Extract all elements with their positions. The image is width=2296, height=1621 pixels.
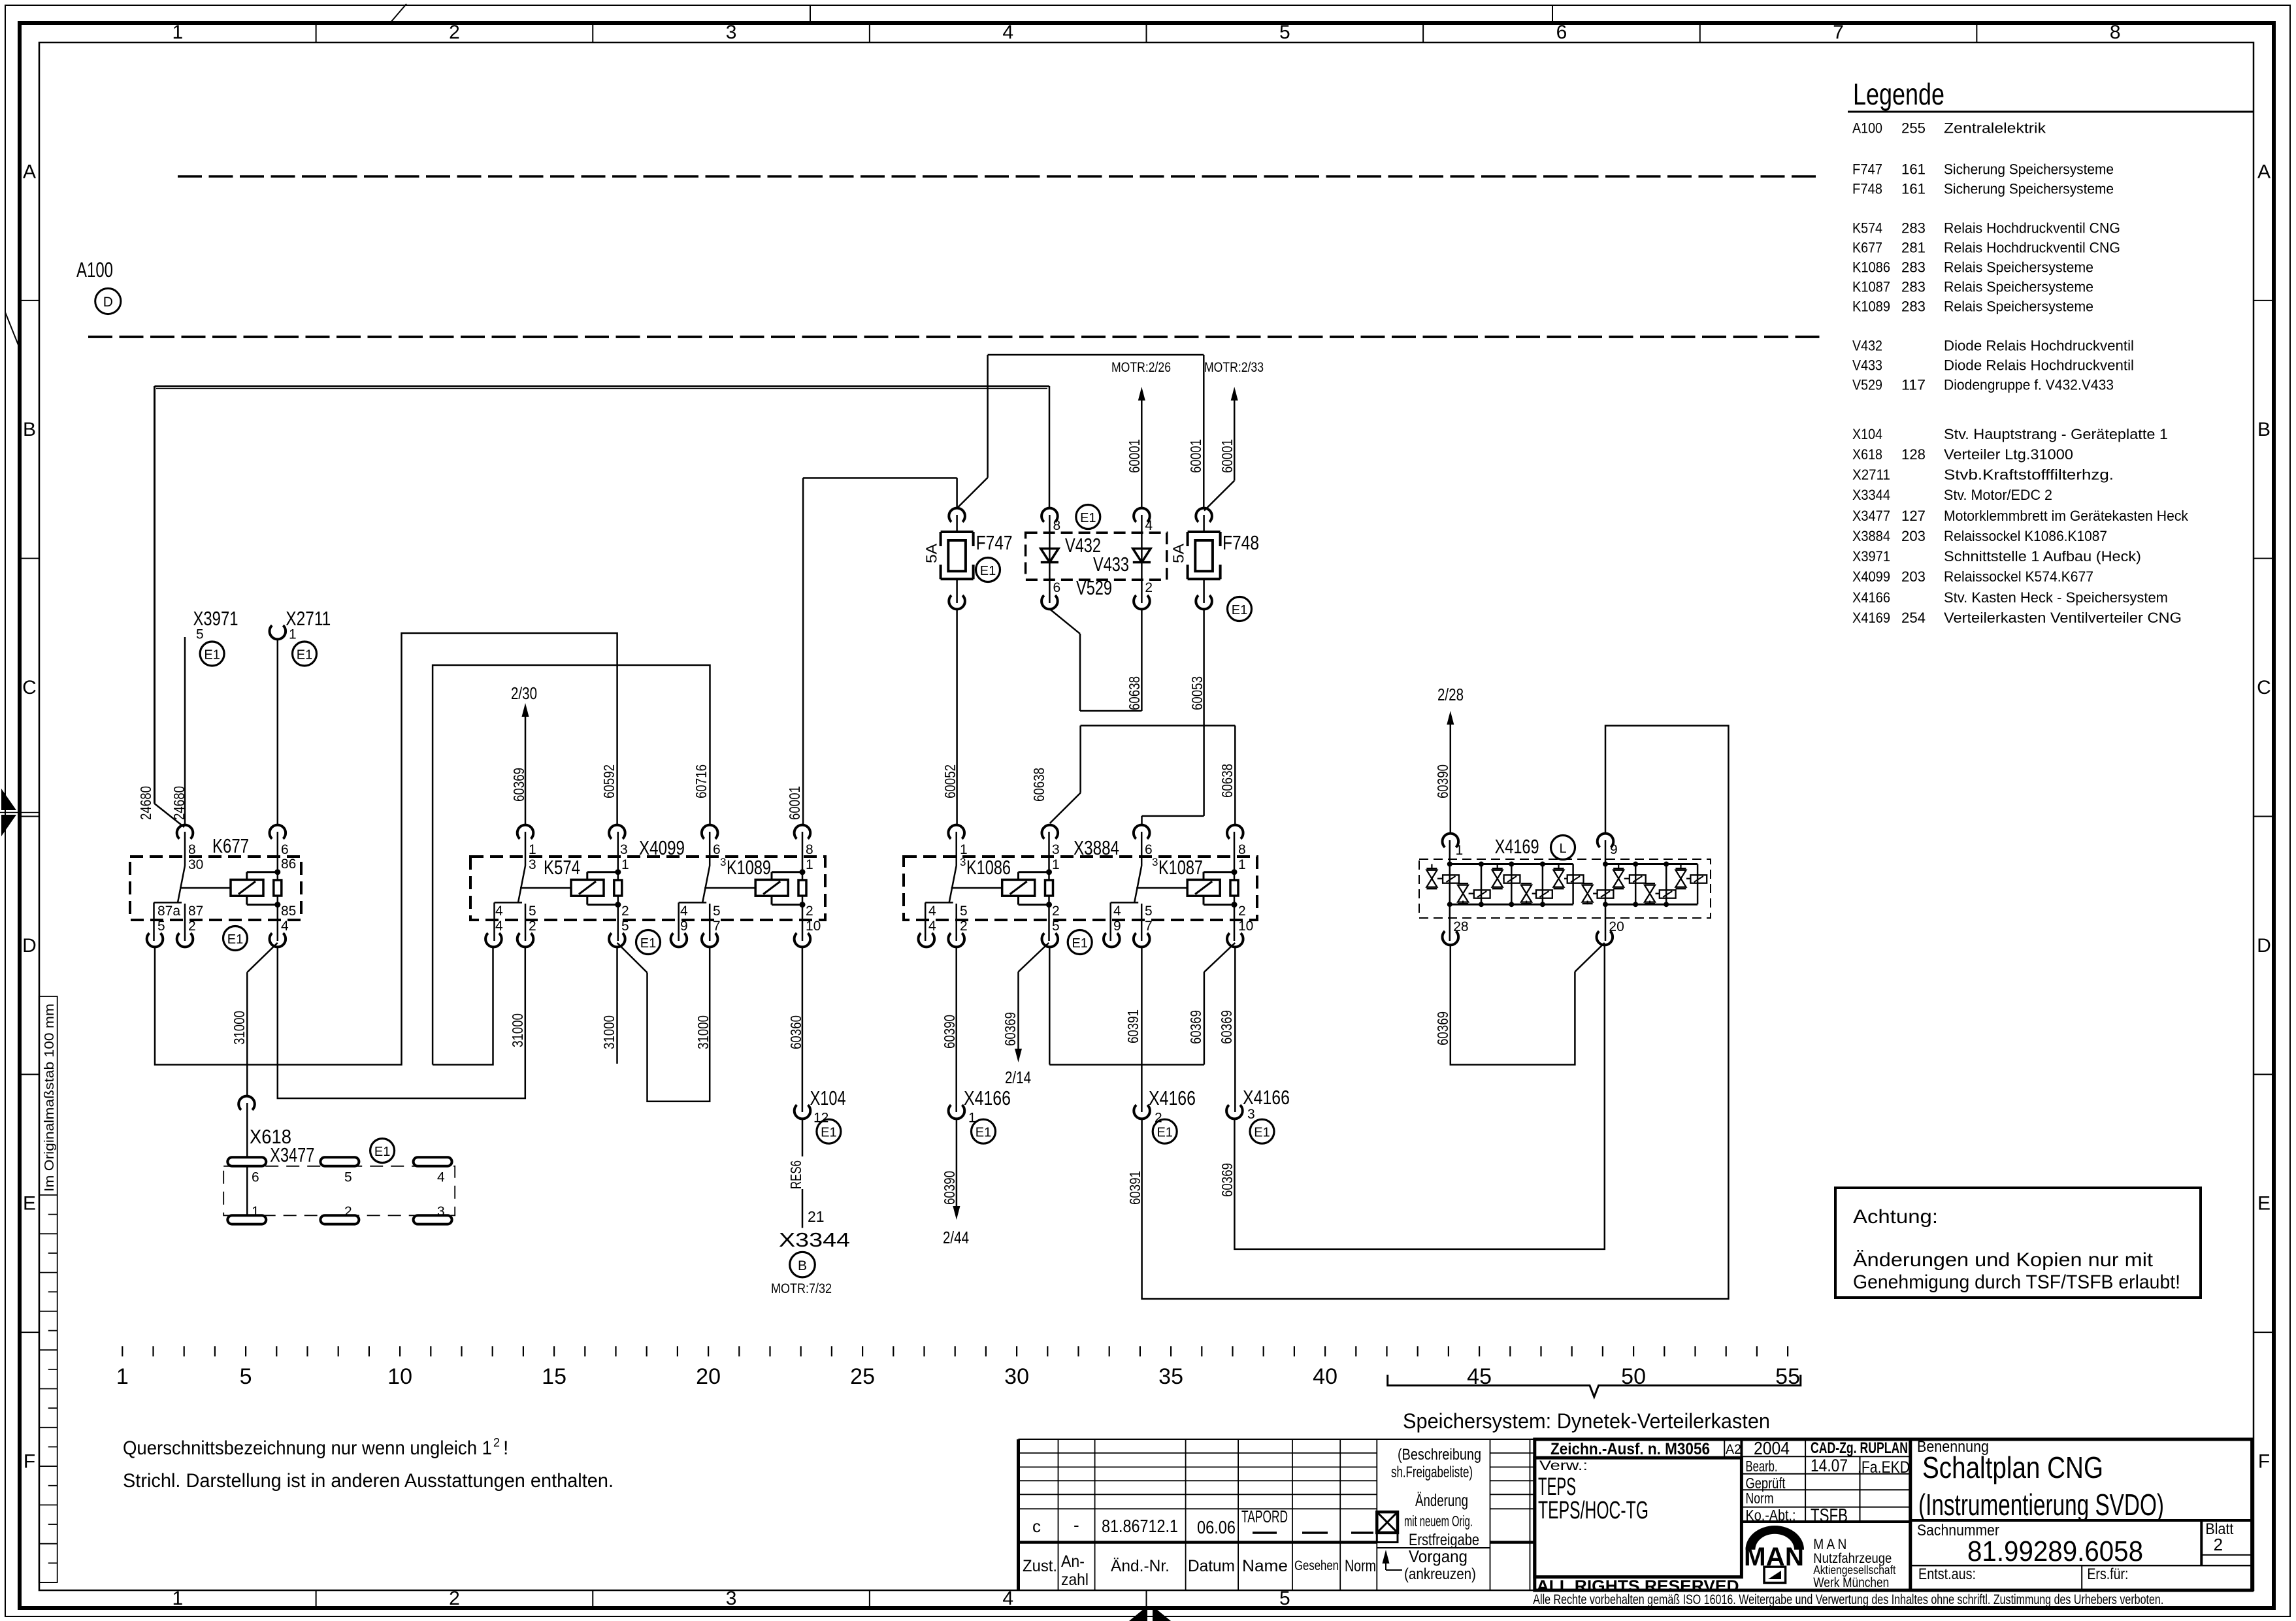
svg-text:8: 8 [2110,22,2121,43]
wire X618 to X3477 net 31000 [246,1103,248,1223]
svg-text:Vorgang: Vorgang [1409,1547,1468,1566]
wire net top link F747-F748 [988,354,1204,356]
svg-text:60638: 60638 [1030,768,1047,802]
svg-text:128: 128 [1901,446,1926,463]
svg-text:-: - [1074,1515,1079,1535]
svg-text:V529: V529 [1076,576,1112,599]
svg-text:E1: E1 [1156,1126,1172,1140]
svg-text:F748: F748 [1852,181,1882,197]
svg-text:TSFB: TSFB [1811,1505,1848,1526]
svg-text:X618: X618 [1852,446,1882,463]
svg-text:2/28: 2/28 [1437,685,1464,704]
wire net 60001 K1089 pin8 to F747 [803,477,957,479]
E1 circle X3971 [200,642,224,666]
svg-text:5: 5 [529,904,536,919]
svg-text:10: 10 [1238,919,1253,934]
svg-text:3: 3 [726,1588,737,1609]
X4169 valve units upper row [1426,864,1707,889]
wire net 60369 X4169 pin28 to pin20 [1451,945,1575,1065]
connector arcs fuse-diode row bottom [949,595,1212,609]
relay K1087 coil [1234,832,1236,880]
svg-text:60391: 60391 [1124,1009,1141,1043]
X3477 contact pin 4 [414,1157,452,1166]
svg-text:2: 2 [344,1204,352,1219]
svg-text:6: 6 [252,1170,259,1185]
svg-text:6: 6 [713,842,721,857]
svg-text:21: 21 [808,1208,825,1225]
svg-text:Genehmigung durch TSF/TSFB erl: Genehmigung durch TSF/TSFB erlaubt! [1853,1271,2180,1293]
svg-text:24680: 24680 [171,786,188,820]
svg-text:283: 283 [1901,279,1926,295]
title block Vorgang cell [1377,1446,1481,1583]
svg-text:Aktiengesellschaft: Aktiengesellschaft [1813,1564,1895,1577]
wire X2711 to K677 pin 6 net 59000 [277,639,279,825]
svg-text:2: 2 [1145,580,1153,595]
svg-text:V529: V529 [1852,377,1882,393]
svg-text:E1: E1 [1080,511,1096,525]
svg-text:3: 3 [529,857,536,872]
connector arcs X4169 bottom [1443,931,1459,945]
wire net 60360 K1089 pin10 to X104 [802,947,804,1112]
svg-text:X104: X104 [810,1087,846,1109]
svg-text:1: 1 [621,857,629,872]
frame column ticks top [316,23,1977,1608]
svg-text:81.86712.1: 81.86712.1 [1102,1516,1178,1536]
svg-text:Relais Hochdruckventil CNG: Relais Hochdruckventil CNG [1944,240,2120,256]
svg-text:2: 2 [1052,904,1060,919]
svg-text:3: 3 [437,1204,445,1219]
svg-text:E1: E1 [374,1145,390,1159]
svg-text:E1: E1 [1232,603,1247,617]
svg-text:6: 6 [281,842,289,857]
svg-text:X3477: X3477 [270,1143,314,1166]
svg-text:283: 283 [1901,220,1926,237]
svg-text:8: 8 [1238,842,1246,857]
svg-text:K1087: K1087 [1158,856,1203,879]
svg-text:3: 3 [1247,1107,1255,1122]
svg-text:3: 3 [726,22,737,43]
relay socket X4099 dashed box [470,857,825,920]
svg-text:3: 3 [720,856,726,868]
wire F747 to K1086 pin 1 net 60052 [956,515,958,532]
title block revision header row [1023,1552,1376,1589]
svg-text:1: 1 [529,842,536,857]
svg-text:L: L [1559,842,1566,856]
node D circle [95,288,121,314]
svg-text:127: 127 [1901,508,1926,524]
E1 circle X4166-3 [1250,1119,1274,1143]
svg-text:9: 9 [680,919,688,934]
svg-text:31000: 31000 [695,1015,712,1049]
svg-text:2: 2 [449,22,460,43]
svg-text:2: 2 [621,904,629,919]
svg-text:9: 9 [1113,919,1121,934]
svg-text:Relais Speichersysteme: Relais Speichersysteme [1944,259,2093,276]
svg-text:K1086: K1086 [966,856,1011,879]
svg-text:35: 35 [1158,1364,1183,1389]
svg-text:Norm: Norm [1746,1490,1774,1507]
svg-text:A100: A100 [76,258,113,282]
svg-text:14.07: 14.07 [1811,1456,1848,1475]
svg-text:Ko.-Abt.:: Ko.-Abt.: [1746,1507,1796,1524]
svg-text:K1089: K1089 [1852,299,1890,315]
svg-text:X3971: X3971 [1852,548,1890,565]
svg-text:5: 5 [1279,1588,1290,1609]
svg-text:8: 8 [806,842,813,857]
wire net 60391 K1087 pin7 to X4166-2 [1141,947,1143,1112]
connector arcs X4169 top [1443,834,1459,847]
wire net 60716 K574 pin4 to K1089 pin6 [433,947,493,1065]
svg-text:E1: E1 [227,932,243,947]
relay K677 contact [184,832,186,866]
svg-text:60390: 60390 [941,1171,958,1205]
svg-text:6: 6 [1053,580,1061,595]
svg-text:4: 4 [495,919,503,934]
svg-text:3: 3 [620,842,628,857]
svg-text:1: 1 [960,842,968,857]
svg-text:60001: 60001 [1126,439,1143,473]
svg-text:2004: 2004 [1754,1438,1790,1458]
svg-text:161: 161 [1901,181,1926,197]
svg-text:V433: V433 [1852,357,1882,374]
fold mark tick top 2 [1552,5,1553,22]
svg-text:2: 2 [188,919,196,934]
X4169 internal rails and wires [1447,840,1697,941]
E1 circle X4166-2 [1153,1119,1177,1143]
svg-text:60390: 60390 [941,1015,958,1049]
svg-text:4: 4 [928,904,936,919]
svg-text:281: 281 [1901,240,1926,256]
wire X104 to X3344 net RES6 [802,1118,804,1156]
relay K1089 coil [802,832,804,880]
svg-text:X3477: X3477 [1852,508,1890,524]
svg-text:X3884: X3884 [1852,528,1890,544]
svg-text:sh.Freigabeliste): sh.Freigabeliste) [1391,1464,1473,1481]
svg-text:2: 2 [493,1436,500,1449]
svg-text:K1087: K1087 [1852,279,1890,295]
svg-text:Verteilerkasten Ventilverteile: Verteilerkasten Ventilverteiler CNG [1944,610,2182,626]
svg-text:87a: 87a [157,904,180,919]
svg-text:7: 7 [1145,919,1153,934]
svg-text:Relais Hochdruckventil CNG: Relais Hochdruckventil CNG [1944,220,2120,237]
svg-text:F747: F747 [1852,161,1882,178]
svg-text:F: F [24,1451,35,1473]
svg-text:60369: 60369 [510,768,527,802]
svg-text:Werk München: Werk München [1813,1575,1889,1590]
svg-text:5: 5 [1279,22,1290,43]
svg-text:Diodengruppe f. V432.V433: Diodengruppe f. V432.V433 [1944,377,2114,393]
connector X3477 dashed box [223,1166,455,1216]
svg-text:V432: V432 [1852,338,1882,354]
svg-text:2: 2 [1238,904,1246,919]
svg-text:Diode Relais Hochdruckventil: Diode Relais Hochdruckventil [1944,357,2134,374]
E1 circle X104 [817,1119,841,1143]
svg-text:c: c [1032,1516,1041,1536]
svg-text:2: 2 [2214,1535,2223,1554]
svg-text:60369: 60369 [1434,1011,1451,1045]
svg-text:E: E [2257,1193,2271,1215]
svg-text:Änd.-Nr.: Änd.-Nr. [1111,1557,1170,1575]
wire net 31000 K677 pin4 to K574 pin2 [278,947,525,1098]
svg-text:K574: K574 [1852,220,1882,237]
X3477 contact pin 6 [227,1157,266,1166]
fold mark triangles left middle [1,789,16,810]
note box Achtung [1835,1188,2201,1298]
svg-text:Datum: Datum [1188,1557,1235,1575]
svg-text:60052: 60052 [942,764,959,798]
svg-text:CAD-Zg. RUPLAN: CAD-Zg. RUPLAN [1811,1439,1908,1457]
svg-text:Norm: Norm [1345,1557,1376,1575]
svg-text:255: 255 [1901,120,1926,136]
fuse F748 5A [1188,531,1221,533]
X3477 contact pin 1 [227,1215,266,1224]
svg-text:(Beschreibung: (Beschreibung [1398,1446,1481,1464]
wire net 60638 X3884 pin3 to pin8 [1050,793,1081,824]
E1 circle X4166-1 [972,1119,996,1143]
svg-text:1: 1 [116,1364,129,1389]
svg-text:.Fa.EKD: .Fa.EKD [1858,1458,1910,1477]
svg-text:60390: 60390 [1434,764,1451,798]
wire net 31000 K574 coil bottom to K1089 pin7 [617,943,648,973]
svg-text:Zentralelektrik: Zentralelektrik [1944,120,2046,136]
E1 circle K677 [223,926,248,951]
relay socket X3884 dashed box [904,857,1257,920]
svg-text:E1: E1 [640,936,656,951]
relay K574 coil [617,832,619,880]
E1 circle X3884 [1068,930,1092,955]
svg-text:81.99289.6058: 81.99289.6058 [1967,1535,2143,1567]
svg-text:40: 40 [1313,1364,1337,1389]
svg-text:D: D [22,935,37,957]
connector arcs relay row top [177,825,1243,839]
svg-text:7: 7 [713,919,721,934]
E1 circle X4099 [636,930,661,955]
svg-text:X3344: X3344 [1852,487,1890,503]
svg-text:60053: 60053 [1189,676,1205,710]
svg-text:2: 2 [529,919,536,934]
frame column labels top [172,22,2120,43]
diode group V529 dashed box [1026,532,1167,580]
svg-text:60592: 60592 [600,764,617,798]
svg-text:Zeichn.-Ausf. n. M3056: Zeichn.-Ausf. n. M3056 [1550,1440,1710,1458]
svg-text:5: 5 [1052,919,1060,934]
connector X4169 dashed box [1419,859,1711,918]
svg-text:5: 5 [196,627,204,642]
svg-text:Querschnittsbezeichnung nur we: Querschnittsbezeichnung nur wenn ungleic… [123,1437,492,1459]
svg-text:Zust.: Zust. [1023,1557,1057,1575]
svg-text:X2711: X2711 [1852,467,1890,483]
wire net 60592 K677 pin5 to K574 coil [155,633,617,1065]
svg-text:E1: E1 [980,564,996,578]
svg-text:F747: F747 [976,531,1013,554]
svg-text:Name: Name [1242,1557,1288,1575]
svg-text:60001: 60001 [1219,439,1236,473]
svg-text:MOTR:7/32: MOTR:7/32 [771,1281,832,1296]
svg-text:10: 10 [806,919,821,934]
svg-text:5: 5 [621,919,629,934]
E1 circle X3477 [370,1139,395,1163]
svg-text:Sicherung Speichersysteme: Sicherung Speichersysteme [1944,161,2114,178]
X3477 contact pin 5 [320,1157,359,1166]
svg-text:Relais Speichersysteme: Relais Speichersysteme [1944,299,2093,315]
svg-text:5A: 5A [923,543,940,563]
relay K677 dashed box [130,857,301,920]
svg-text:zahl: zahl [1061,1571,1089,1589]
svg-text:K1086: K1086 [1852,259,1890,276]
svg-text:E1: E1 [297,648,312,663]
off-sheet arrow 2/44 below X4166-1 [956,1118,958,1206]
svg-text:Stvb.Kraftstofffilterhzg.: Stvb.Kraftstofffilterhzg. [1944,467,2114,483]
relay K574 contact [525,832,527,866]
svg-text:Schaltplan CNG: Schaltplan CNG [1922,1450,2103,1484]
fold mark triangles bottom centre [1129,1606,1147,1621]
svg-text:Relais Speichersysteme: Relais Speichersysteme [1944,279,2093,295]
svg-text:60369: 60369 [1219,1163,1236,1197]
svg-text:4: 4 [495,904,503,919]
svg-text:60001: 60001 [1187,439,1204,473]
svg-text:RES6: RES6 [787,1160,804,1189]
svg-text:5: 5 [1145,904,1153,919]
svg-text:6: 6 [1556,22,1567,43]
svg-text:F748: F748 [1222,531,1259,554]
svg-text:25: 25 [850,1364,875,1389]
svg-text:60369: 60369 [1002,1012,1019,1046]
svg-text:MOTR:2/33: MOTR:2/33 [1204,360,1264,375]
X3477 contact pin 3 [414,1215,452,1224]
svg-text:A: A [23,161,36,182]
svg-text:20: 20 [696,1364,721,1389]
X3477 contact pin 2 [320,1215,359,1224]
svg-text:1: 1 [1052,857,1060,872]
svg-text:31000: 31000 [509,1013,526,1047]
svg-text:60716: 60716 [693,764,710,798]
A100 dashed boundary upper [178,175,1822,178]
svg-text:3: 3 [960,856,966,868]
wire net 31000 K677 pin4 to X618 [247,943,278,972]
svg-text:2/44: 2/44 [943,1228,969,1247]
svg-text:An-: An- [1061,1552,1085,1571]
fold mark diagonal top [391,4,406,22]
svg-text:Änderung: Änderung [1415,1490,1468,1510]
svg-text:Stv. Hauptstrang - Geräteplatt: Stv. Hauptstrang - Geräteplatte 1 [1944,426,2168,442]
svg-text:B: B [798,1258,807,1273]
svg-text:2: 2 [960,919,968,934]
svg-text:C: C [2257,677,2271,698]
svg-text:283: 283 [1901,259,1926,276]
svg-text:60638: 60638 [1219,764,1236,798]
svg-text:X4169: X4169 [1852,610,1890,626]
svg-text:B: B [23,419,36,440]
svg-text:5A: 5A [1170,543,1187,563]
svg-text:87: 87 [188,904,203,919]
svg-text:Gesehen: Gesehen [1294,1558,1339,1573]
connector arcs relay row bottom [147,933,1243,947]
svg-text:6: 6 [1145,842,1153,857]
svg-text:3: 3 [1052,842,1060,857]
svg-text:10: 10 [387,1364,412,1389]
svg-text:254: 254 [1901,610,1926,626]
svg-text:A2: A2 [1726,1442,1741,1457]
wire F748 fuse stubs [1203,515,1205,532]
MAN logo [1744,1526,1804,1582]
title block revision row c [1032,1507,1373,1537]
wire net 60369 K1086 coil to 2/14 arrow [1019,943,1049,972]
svg-text:!: ! [503,1437,508,1459]
ruler scale 1-55 [116,1346,1800,1389]
svg-text:D: D [2257,935,2271,957]
wire net 60369 X4166-3 to X4169 pin 20 [1234,945,1604,1249]
svg-text:K1089: K1089 [727,856,771,879]
svg-text:Verw.:: Verw.: [1539,1458,1588,1473]
wire net 60369 K1087 pin10 to X4166-3 [1234,947,1236,1112]
node L circle [1551,836,1575,860]
svg-text:1: 1 [172,1588,183,1609]
svg-text:7: 7 [1833,22,1844,43]
svg-text:06.06: 06.06 [1197,1517,1236,1537]
svg-text:Speichersystem: Dynetek-Vertei: Speichersystem: Dynetek-Verteilerkasten [1403,1409,1770,1433]
svg-text:Relaissockel K574.K677: Relaissockel K574.K677 [1944,568,2093,585]
svg-text:K574: K574 [544,856,580,879]
svg-text:Im Originalmaßstab 100 mm: Im Originalmaßstab 100 mm [42,1004,57,1192]
svg-text:K677: K677 [1852,240,1882,256]
svg-text:5: 5 [157,919,165,934]
svg-text:Stv. Kasten Heck - Speichersys: Stv. Kasten Heck - Speichersystem [1944,589,2168,606]
svg-text:X104: X104 [1852,426,1882,442]
svg-text:1: 1 [172,22,183,43]
svg-text:E1: E1 [976,1126,991,1140]
svg-text:Relaissockel K1086.K1087: Relaissockel K1086.K1087 [1944,528,2107,544]
svg-text:4: 4 [1002,1588,1013,1609]
svg-text:60001: 60001 [786,786,803,820]
svg-text:A: A [2257,161,2271,182]
relay K1087 contact [1141,832,1143,866]
scale bar Im Originalmassstab 100 mm [39,996,57,1582]
svg-text:4: 4 [1002,22,1013,43]
svg-text:1: 1 [289,627,297,642]
svg-text:Alle Rechte vorbehalten gemäß: Alle Rechte vorbehalten gemäß ISO 16016.… [1533,1592,2163,1607]
svg-text:Stv. Motor/EDC 2: Stv. Motor/EDC 2 [1944,487,2052,503]
svg-text:(Instrumentierung SVDO): (Instrumentierung SVDO) [1918,1488,2164,1522]
svg-text:Sicherung Speichersysteme: Sicherung Speichersysteme [1944,181,2114,197]
svg-text:Verteiler Ltg.31000: Verteiler Ltg.31000 [1944,446,2073,463]
svg-text:X3344: X3344 [779,1228,850,1251]
svg-text:5: 5 [960,904,968,919]
svg-text:31000: 31000 [231,1011,248,1045]
fold mark diagonal left [5,312,20,348]
svg-text:24680: 24680 [137,786,154,820]
svg-text:X4169: X4169 [1495,835,1539,858]
svg-text:X3884: X3884 [1074,836,1119,859]
frame row ticks [20,301,2274,1332]
brace Speichersystem Dynetek-Verteilerkasten [1388,1375,1801,1397]
svg-text:2: 2 [449,1588,460,1609]
E1 circle X2711 [293,642,317,666]
svg-text:8: 8 [188,842,196,857]
svg-text:Bearb.: Bearb. [1746,1458,1778,1475]
svg-text:30: 30 [1004,1364,1029,1389]
svg-text:Motorklemmbrett im Gerätekaste: Motorklemmbrett im Gerätekasten Heck [1944,508,2189,524]
svg-text:X4166: X4166 [964,1087,1011,1109]
legend entries [1852,120,2189,626]
svg-text:85: 85 [281,904,296,919]
svg-text:4: 4 [1113,904,1121,919]
svg-text:Diode Relais Hochdruckventil: Diode Relais Hochdruckventil [1944,338,2134,354]
svg-text:B: B [2257,419,2271,440]
svg-text:5: 5 [713,904,721,919]
title block revision table [1019,1439,1535,1590]
E1 circle above V529 [1076,505,1100,529]
svg-text:3: 3 [1152,856,1158,868]
